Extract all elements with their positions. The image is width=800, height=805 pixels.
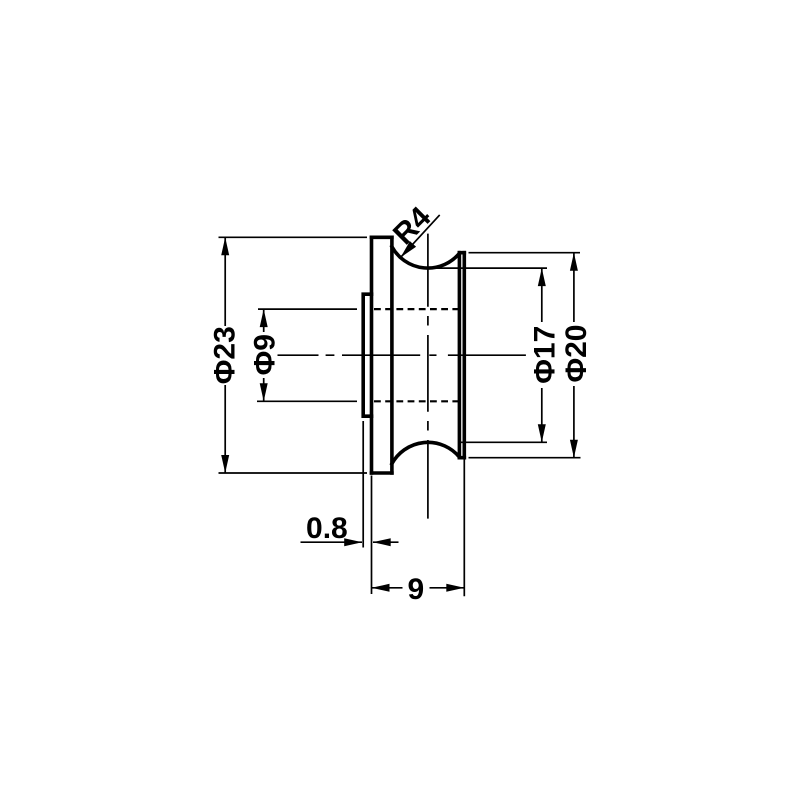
- flange left face: [370, 237, 374, 473]
- rim top and bottom edges: [459, 253, 464, 458]
- svg-text:Φ17: Φ17: [529, 326, 562, 384]
- extension line phi17 bottom: [459, 441, 547, 443]
- svg-text:Φ23: Φ23: [208, 326, 241, 384]
- roller flange disc top and bottom edges: [372, 237, 392, 473]
- extension line phi9 bottom: [257, 400, 357, 402]
- extension line phi23 bottom: [219, 472, 368, 474]
- dimension line phi23: [224, 237, 226, 473]
- rim edge line: [458, 253, 462, 458]
- arrowhead phi23 bottom: [221, 455, 229, 473]
- arrowhead phi20 bottom: [570, 440, 578, 458]
- hidden bore line lower: [374, 400, 464, 402]
- svg-text:Φ9: Φ9: [249, 334, 282, 375]
- dimension line phi9: [263, 309, 265, 401]
- arrowhead phi23 top: [221, 237, 229, 255]
- dimension line 9: [372, 587, 465, 589]
- svg-text:0.8: 0.8: [306, 512, 348, 545]
- svg-text:Φ20: Φ20: [560, 325, 593, 383]
- svg-text:9: 9: [407, 573, 424, 606]
- arrowhead phi9 top: [260, 309, 268, 327]
- flange right face: [390, 237, 394, 473]
- arrowhead phi9 bottom: [260, 383, 268, 401]
- arrowhead 9 right: [446, 584, 464, 592]
- vertical groove centerline: [427, 234, 429, 519]
- extension line phi20 bottom: [469, 457, 581, 459]
- extension line body right face: [463, 460, 465, 597]
- arrowhead phi17 bottom: [538, 424, 546, 442]
- hub boss (0.8 step): [363, 294, 371, 416]
- arrowhead phi17 top: [538, 268, 546, 286]
- leader line R4: [401, 215, 440, 258]
- dimension line phi17: [541, 268, 543, 442]
- extension line phi20 top: [469, 252, 581, 254]
- arrowhead 9 left: [372, 584, 390, 592]
- horizontal centerline: [278, 354, 526, 356]
- hidden bore line upper: [374, 308, 464, 310]
- arrowhead 0.8 left: [344, 538, 362, 546]
- top groove arc R4: [392, 247, 460, 268]
- dimension line phi20: [573, 253, 575, 458]
- extension line flange face: [371, 476, 373, 595]
- dimension line 0.8 right part: [373, 541, 399, 543]
- body right face: [462, 253, 466, 458]
- extension line phi23 top: [219, 236, 368, 238]
- arrowhead phi20 top: [570, 253, 578, 271]
- dimension line 0.8 left part: [301, 541, 363, 543]
- bottom groove arc R4: [392, 442, 460, 463]
- extension line phi17 top: [426, 267, 547, 269]
- extension line phi9 top: [258, 308, 357, 310]
- arrowhead 0.8 right: [373, 538, 391, 546]
- arrowhead R4 leader: [401, 241, 417, 257]
- extension line 0.8 hub face: [362, 421, 364, 548]
